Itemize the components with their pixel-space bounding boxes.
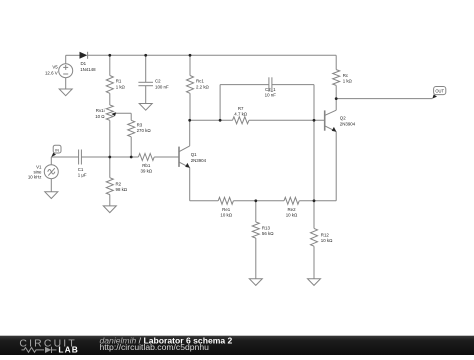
- svg-text:C2: C2: [155, 79, 161, 84]
- svg-text:R2: R2: [116, 181, 122, 186]
- svg-text:10 kΩ: 10 kΩ: [286, 212, 298, 217]
- svg-text:IN: IN: [55, 148, 59, 152]
- svg-text:D1: D1: [81, 61, 87, 66]
- svg-text:1 kΩ: 1 kΩ: [343, 78, 353, 83]
- svg-text:http://circuitlab.com/c5dpnhu: http://circuitlab.com/c5dpnhu: [100, 342, 210, 352]
- svg-text:56 kΩ: 56 kΩ: [262, 231, 274, 236]
- svg-text:100 nF: 100 nF: [155, 84, 169, 89]
- svg-text:Re1: Re1: [222, 207, 231, 212]
- svg-text:Rb1: Rb1: [142, 163, 151, 168]
- svg-text:2N3904: 2N3904: [191, 158, 207, 163]
- svg-text:C2_1: C2_1: [265, 87, 276, 92]
- svg-text:10 kHz: 10 kHz: [28, 175, 42, 180]
- svg-text:Q2: Q2: [340, 115, 346, 120]
- svg-text:C1: C1: [78, 167, 84, 172]
- svg-text:R13: R13: [262, 226, 271, 231]
- svg-text:OUT: OUT: [435, 88, 444, 93]
- svg-text:Rc1: Rc1: [196, 79, 204, 84]
- svg-text:2N3904: 2N3904: [340, 121, 356, 126]
- svg-text:12.6 V: 12.6 V: [45, 70, 58, 75]
- svg-text:270 kΩ: 270 kΩ: [137, 128, 152, 133]
- svg-text:10 nF: 10 nF: [265, 92, 277, 97]
- svg-text:V5: V5: [52, 65, 58, 70]
- svg-text:LAB: LAB: [58, 345, 79, 355]
- svg-text:R1: R1: [116, 79, 122, 84]
- svg-text:R7: R7: [238, 106, 244, 111]
- svg-text:4.7 kΩ: 4.7 kΩ: [234, 112, 248, 117]
- svg-text:2.2 kΩ: 2.2 kΩ: [196, 85, 210, 90]
- svg-text:10 kΩ: 10 kΩ: [220, 212, 232, 217]
- svg-text:39 kΩ: 39 kΩ: [141, 169, 153, 174]
- svg-text:Q1: Q1: [191, 152, 197, 157]
- svg-text:Rc: Rc: [343, 73, 349, 78]
- svg-text:1N4148: 1N4148: [80, 67, 96, 72]
- svg-text:10 kΩ: 10 kΩ: [321, 238, 333, 243]
- svg-text:10 Ω: 10 Ω: [95, 114, 105, 119]
- svg-text:R12: R12: [321, 232, 330, 237]
- svg-text:Rv1i: Rv1i: [96, 108, 105, 113]
- svg-text:Re2: Re2: [287, 207, 296, 212]
- svg-text:1 kΩ: 1 kΩ: [116, 85, 126, 90]
- svg-text:1 µF: 1 µF: [78, 172, 87, 177]
- svg-text:98 kΩ: 98 kΩ: [116, 187, 128, 192]
- svg-text:R3: R3: [137, 122, 143, 127]
